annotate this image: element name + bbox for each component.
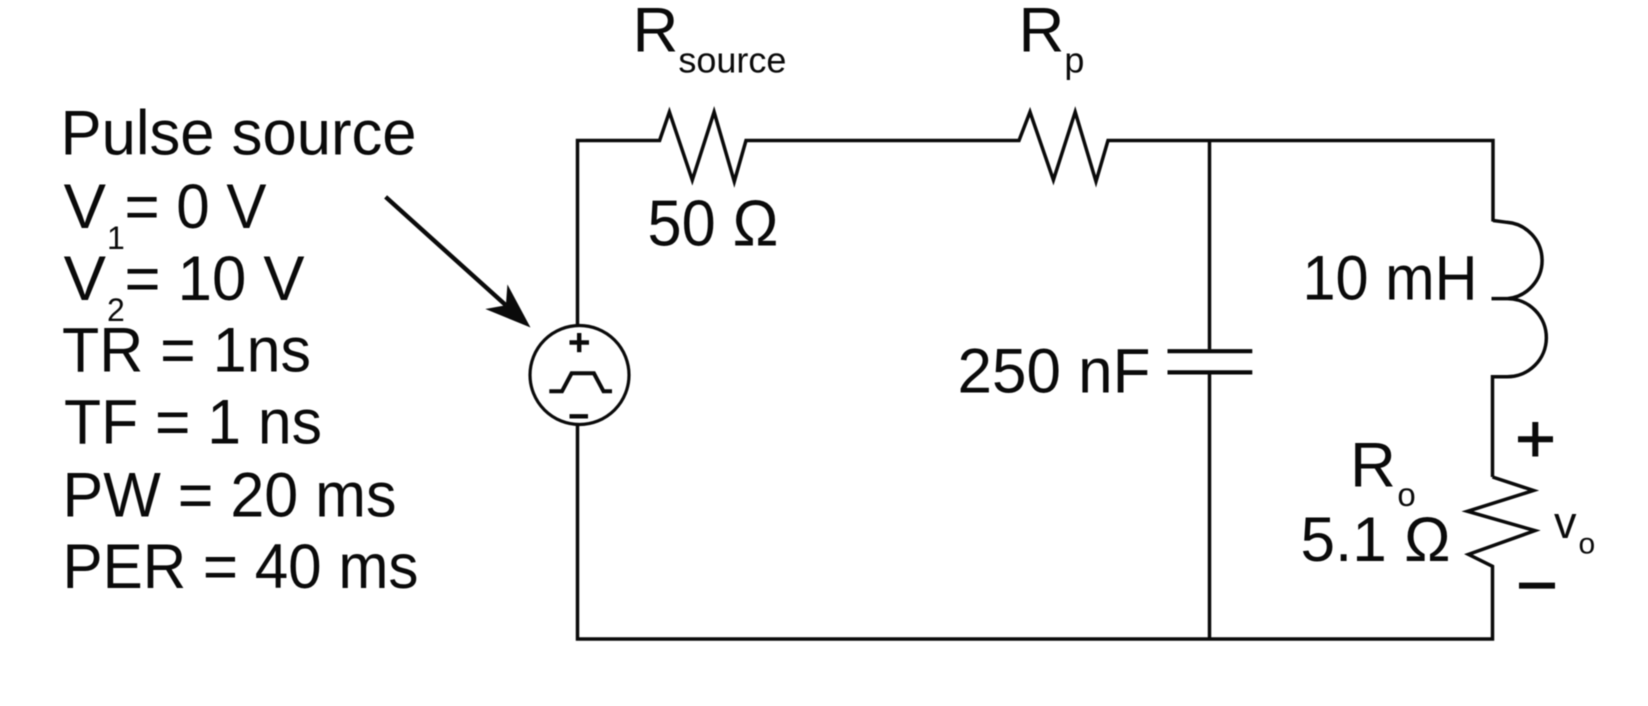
svg-text:10 mH: 10 mH (1303, 244, 1478, 314)
svg-text:vo: vo (1554, 497, 1595, 561)
svg-text:TF = 1 ns: TF = 1 ns (64, 388, 322, 458)
svg-text:Rp: Rp (1019, 0, 1085, 81)
svg-text:= 10 V: = 10 V (125, 244, 306, 314)
svg-text:250 nF: 250 nF (958, 337, 1151, 407)
svg-text:V: V (64, 172, 107, 242)
svg-text:= 0 V: = 0 V (125, 172, 268, 242)
svg-text:Ro: Ro (1350, 431, 1416, 514)
svg-text:5.1 Ω: 5.1 Ω (1301, 505, 1451, 575)
svg-text:PER = 40 ms: PER = 40 ms (63, 532, 419, 602)
svg-text:PW = 20 ms: PW = 20 ms (63, 461, 397, 531)
svg-text:50 Ω: 50 Ω (648, 187, 779, 260)
svg-text:Pulse source: Pulse source (61, 99, 417, 169)
svg-text:1: 1 (107, 220, 125, 256)
svg-text:Rsource: Rsource (633, 0, 787, 81)
svg-text:TR = 1ns: TR = 1ns (62, 316, 311, 386)
svg-text:V: V (64, 244, 107, 314)
